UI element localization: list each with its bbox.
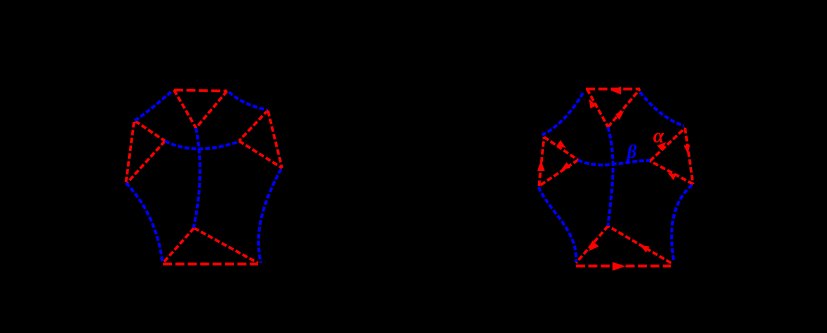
right figure: arrow on bottom edge pointing right [613, 262, 626, 271]
left figure: red edge Jleft-Vl [127, 141, 165, 183]
left figure: red leg T1-A [174, 90, 196, 128]
left figure: bottom red edge BL-BR [163, 263, 258, 266]
right figure: arrow on Vlp-Vtlp pointing up [537, 160, 545, 171]
right figure: red edge Vtrp-Vrp [685, 128, 693, 184]
left figure: blue arc T1-Vtl [134, 92, 171, 121]
right figure: arrow on Jleftp-Vlp pointing down-left [561, 162, 570, 170]
right figure: arrow on Bp-BLp pointing down-left [589, 241, 599, 252]
right figure: arrow on top edge pointing left [611, 87, 621, 95]
right figure: bottom red edge BLp-BRp [576, 265, 671, 268]
right figure: blue center line Ap-Bp [608, 127, 613, 226]
right figure: red edge Bp-BLp [576, 226, 608, 263]
left figure: blue arc Vl-BL [126, 183, 163, 263]
left figure: red edge Vtl-Vl [126, 122, 134, 182]
left figure: blue middle curve Jleft-Jright [165, 141, 239, 149]
left figure: blue arc T2-Vtr [229, 92, 267, 110]
right figure: red edge BRp-Bp [608, 226, 671, 263]
right figure: red leg T1p-Ap [587, 89, 608, 127]
left figure: top red edge T1-T2 [174, 90, 227, 91]
left figure: red edge B-BL [163, 228, 194, 263]
right figure: arrow on leg Ap-T2p pointing up-right [615, 111, 624, 120]
right figure: arrow on BRp-Bp pointing up-left [640, 245, 650, 253]
right figure: top red edge T1p-T2p [586, 88, 640, 91]
right figure: arrow on leg T1p-Ap pointing up-left [589, 99, 596, 109]
left figure: red edge Jright-Vr [239, 141, 282, 168]
left figure: red edge Vtr-Vr [268, 111, 282, 168]
right figure: arrow on Vtrp-Vrp pointing down [684, 145, 690, 154]
right figure: red edge Vlp-Vtlp [539, 137, 544, 186]
right figure: blue arc T2p-Vtrp [640, 92, 684, 126]
right figure: arrow on Jrightp-Vtrp pointing up-right [657, 142, 666, 151]
right figure: red edge Jrightp-Vtrp [650, 128, 685, 161]
right figure: blue arc Vrp-BRp [672, 185, 692, 262]
svg-text:β: β [626, 142, 637, 163]
left figure: red edge Vtr-Jright [239, 110, 268, 141]
right figure: arrow on Vtlp-Jleftp pointing down-right [557, 140, 566, 148]
left figure: red edge B-BR [194, 228, 258, 263]
left figure: blue arc Vr-BR [259, 169, 281, 263]
right figure: red edge Jleftp-Vlp [539, 160, 578, 186]
right figure: arrow on Vrp-Jrightp pointing up-left [668, 173, 677, 180]
right figure: blue middle curve Jleftp-Jrightp [578, 160, 650, 165]
right figure: red leg Ap-T2p [608, 89, 640, 127]
left figure: red leg T2-A [196, 91, 227, 128]
right figure: red edge Vrp-Jrightp [650, 161, 693, 184]
right figure: red edge Vtlp-Jleftp [544, 137, 578, 160]
right figure: blue arc T1p-Vtlp [542, 93, 583, 135]
left figure: blue center line A-B [194, 128, 200, 228]
left figure: red edge Vtl-Jleft [135, 121, 165, 141]
svg-text:α: α [653, 126, 665, 148]
right figure: blue arc Vlp-BLp [539, 187, 577, 262]
